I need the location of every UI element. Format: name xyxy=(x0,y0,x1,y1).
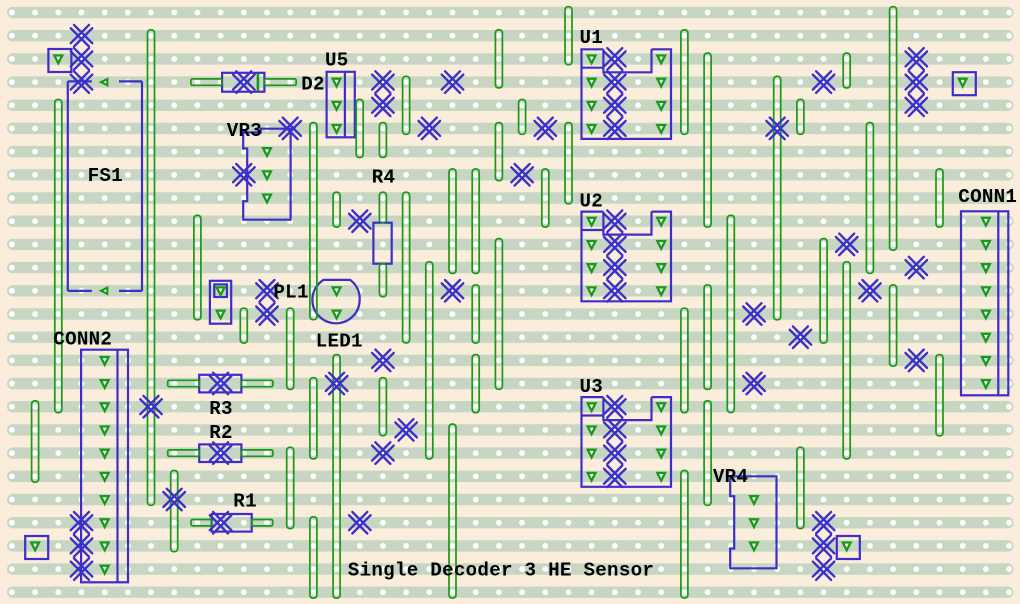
svg-text:U1: U1 xyxy=(580,27,604,49)
svg-text:U2: U2 xyxy=(580,190,604,212)
svg-text:R1: R1 xyxy=(233,490,257,512)
svg-text:U3: U3 xyxy=(580,376,604,398)
svg-text:D2: D2 xyxy=(301,74,325,96)
svg-text:LED1: LED1 xyxy=(316,331,363,353)
svg-text:PL1: PL1 xyxy=(273,282,308,304)
svg-text:FS1: FS1 xyxy=(88,165,123,187)
svg-text:R2: R2 xyxy=(209,422,233,444)
svg-text:CONN1: CONN1 xyxy=(958,186,1017,208)
svg-text:CONN2: CONN2 xyxy=(53,328,112,350)
svg-text:VR3: VR3 xyxy=(227,120,262,142)
svg-text:VR4: VR4 xyxy=(713,466,748,488)
svg-text:U5: U5 xyxy=(325,50,349,72)
svg-text:Single Decoder 3 HE Sensor: Single Decoder 3 HE Sensor xyxy=(348,559,654,581)
svg-text:R3: R3 xyxy=(209,398,233,420)
svg-text:R4: R4 xyxy=(372,167,396,189)
